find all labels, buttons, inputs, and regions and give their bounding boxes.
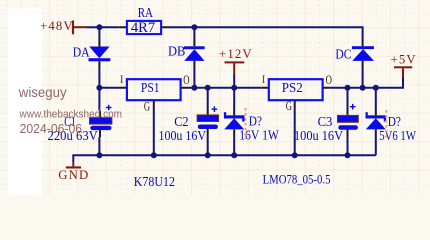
- junction at PS1 input node: [96, 85, 102, 91]
- capacitor C1 pins: [99, 111, 101, 137]
- error marker (orange dashes) near D? 5V6: [385, 110, 387, 139]
- junction PS2 G / ground rail: [292, 152, 298, 158]
- svg-text:D?: D?: [388, 114, 401, 129]
- resistor RA pins: [120, 26, 168, 28]
- diode DB pins: [193, 40, 195, 68]
- svg-text:DB: DB: [168, 44, 186, 59]
- ground symbol GND: [58, 162, 89, 181]
- zener D? (16V) pins: [233, 110, 235, 135]
- svg-text:C2: C2: [174, 114, 188, 129]
- wire top rail: [87, 26, 363, 40]
- capacitor C2 pins: [207, 110, 209, 136]
- junction zener D? / 5V rail: [373, 85, 379, 91]
- svg-text:LMO78_05-0.5: LMO78_05-0.5: [263, 172, 331, 186]
- svg-text:4R7: 4R7: [131, 20, 155, 36]
- diode DC: [335, 46, 374, 61]
- svg-text:2024-06-06: 2024-06-06: [20, 122, 83, 136]
- svg-text:100u 16V: 100u 16V: [159, 128, 207, 143]
- wire PS2 ground pin column: [294, 107, 296, 155]
- junction C2 / 12V rail: [205, 85, 211, 91]
- svg-text:DA: DA: [73, 45, 90, 60]
- diode DA pins: [98, 39, 100, 68]
- PS1 pins I O G: [120, 88, 188, 107]
- svg-text:K78U12: K78U12: [134, 174, 175, 189]
- svg-text:+48V: +48V: [40, 19, 74, 33]
- diode DA: [73, 45, 111, 62]
- power port +5V: [391, 52, 417, 77]
- capacitor C3: [294, 104, 358, 143]
- wire DB column: [193, 27, 195, 87]
- junction DC / 5V rail: [360, 85, 366, 91]
- capacitor C1: [48, 105, 112, 144]
- regulator PS1: [120, 72, 190, 114]
- zener diode D? (12V rail): [224, 112, 280, 142]
- svg-text:GND: GND: [58, 168, 89, 182]
- junction C1 / ground rail: [96, 152, 102, 158]
- svg-text:PS2: PS2: [282, 81, 303, 96]
- white margin band: [8, 9, 42, 195]
- svg-text:I: I: [262, 72, 266, 86]
- wire bottom ground rail: [73, 154, 376, 162]
- PS2 pins I O G: [262, 88, 330, 107]
- junction zener D? / ground rail: [231, 152, 237, 158]
- svg-text:RA: RA: [138, 5, 154, 20]
- capacitor C2: [159, 106, 219, 143]
- wire zener D? column (+5V): [375, 88, 377, 156]
- regulator PS2: [262, 72, 332, 113]
- zener D? (5V6) pins: [375, 110, 377, 135]
- svg-text:G: G: [144, 98, 150, 113]
- junction C3 / ground rail: [345, 152, 351, 158]
- power port +12V: [219, 47, 253, 75]
- wire left column (DA/C1): [98, 27, 100, 155]
- junction C2 / ground rail: [205, 152, 211, 158]
- error marker (orange dashes) near D? 16V: [245, 108, 247, 139]
- wire DC column: [362, 68, 364, 88]
- wire C2 column: [207, 88, 209, 156]
- diode DC pins: [362, 40, 364, 68]
- svg-text:C3: C3: [318, 114, 333, 129]
- svg-text:D?: D?: [249, 113, 262, 128]
- wire PS2 output rail: [330, 77, 403, 89]
- resistor RA: [127, 5, 161, 36]
- svg-text:PS1: PS1: [141, 81, 160, 96]
- capacitor C3 pins: [347, 110, 349, 136]
- svg-text:I: I: [120, 72, 124, 86]
- svg-text:+12V: +12V: [219, 47, 253, 61]
- junction DB anode / 12V rail: [191, 85, 197, 91]
- svg-text:+5V: +5V: [391, 52, 417, 66]
- power port +48V: [40, 19, 87, 34]
- svg-text:5V6 1W: 5V6 1W: [379, 128, 416, 143]
- wire PS1 ground pin column: [153, 107, 155, 155]
- diode DB: [168, 44, 205, 61]
- svg-text:O: O: [326, 72, 332, 87]
- svg-text:100u 16V: 100u 16V: [294, 128, 343, 143]
- svg-text:G: G: [286, 98, 292, 113]
- wire PS1 output rail: [188, 87, 262, 89]
- wire PS1 input: [99, 87, 120, 89]
- svg-text:O: O: [183, 72, 189, 87]
- junction zener D? / 12V rail: [231, 85, 237, 91]
- wire C3 column: [347, 88, 349, 156]
- svg-text:www.thebackshed.com: www.thebackshed.com: [19, 109, 122, 121]
- wire zener D? column (+12V): [233, 75, 235, 156]
- svg-text:DC: DC: [335, 46, 351, 61]
- junction at top rail / DB column: [191, 24, 197, 30]
- junction PS1 G / ground rail: [151, 152, 157, 158]
- zener diode D? (5V rail): [366, 112, 417, 143]
- svg-text:wiseguy: wiseguy: [18, 85, 67, 100]
- junction at +48V rail / DA column: [96, 24, 102, 30]
- junction C3 / 5V rail: [345, 85, 351, 91]
